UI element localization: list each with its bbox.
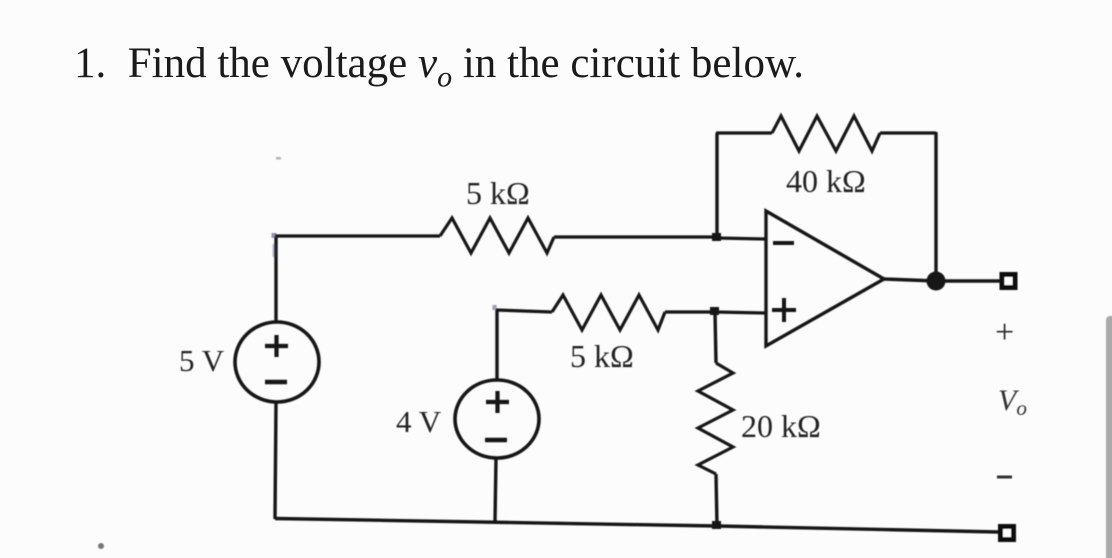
- wire 20k bottom lead: [716, 474, 717, 526]
- problem statement text: [74, 39, 804, 95]
- wire middle horizontal left segment: [496, 310, 552, 312]
- op-amp minus input marking: [773, 241, 794, 245]
- wire 20k top lead: [715, 312, 716, 363]
- node noninverting input junction: [710, 307, 719, 315]
- node output dot: [927, 272, 946, 291]
- op-amp plus input marking: [772, 298, 796, 322]
- wire middle horizontal right segment: [665, 310, 715, 313]
- wire left vertical bottom (5V source bottom lead): [275, 402, 276, 519]
- wire top horizontal right segment to inverting node: [554, 235, 717, 238]
- wire 4V source top lead: [495, 310, 498, 381]
- speck bottom left: [98, 543, 104, 549]
- speck above left corner: [276, 157, 281, 160]
- resistor R2 5k middle zigzag: [552, 295, 665, 330]
- scrollbar gray bar right: [1106, 316, 1112, 558]
- op-amp U1 triangle: [766, 211, 884, 346]
- wire left vertical top (5V source top lead): [274, 237, 277, 323]
- svg-text:5 kΩ: 5 kΩ: [466, 175, 530, 211]
- node inverting input junction: [712, 233, 721, 241]
- wire inverting node to op-amp minus input: [717, 238, 766, 239]
- V2 minus marking: [485, 438, 507, 443]
- svg-text:5 kΩ: 5 kΩ: [570, 338, 634, 374]
- wire op-amp output to node and terminal: [884, 279, 1000, 281]
- svg-text:40 kΩ: 40 kΩ: [786, 163, 866, 199]
- wire bottom ground rail: [275, 519, 999, 533]
- scan artifact blue tick at top-left wire corner: [272, 233, 277, 238]
- wire top horizontal left segment: [275, 234, 440, 237]
- node bottom junction: [712, 521, 721, 529]
- wire feedback top right: [880, 131, 936, 134]
- voltage source V1 5V circle: [235, 322, 319, 402]
- label output minus sign: [997, 476, 1012, 479]
- voltage source V2 4V circle: [455, 380, 539, 458]
- V2 plus marking: [486, 391, 509, 413]
- svg-text:4 V: 4 V: [396, 404, 442, 439]
- V1 plus marking: [265, 335, 288, 357]
- resistor R4 20k vertical zigzag: [698, 363, 733, 474]
- wire 4V source bottom lead: [495, 458, 496, 522]
- resistor R1 5k top zigzag: [440, 218, 554, 253]
- wire feedback top left: [716, 131, 772, 134]
- terminal bottom (open square): [1001, 527, 1014, 540]
- svg-text:Vo: Vo: [998, 384, 1027, 420]
- wire noninverting node to op-amp plus input: [715, 312, 766, 313]
- scan artifact blue tick at 4V corner: [493, 305, 497, 310]
- terminal top output (open square): [1002, 275, 1015, 288]
- svg-text:5 V: 5 V: [179, 343, 225, 378]
- wire feedback down to output node: [934, 132, 937, 278]
- svg-text:20 kΩ: 20 kΩ: [741, 408, 821, 444]
- svg-text:+: +: [995, 314, 1014, 351]
- V1 minus marking: [265, 380, 287, 385]
- wire feedback up from inverting node: [715, 133, 718, 238]
- resistor R3 40k feedback zigzag: [772, 116, 880, 151]
